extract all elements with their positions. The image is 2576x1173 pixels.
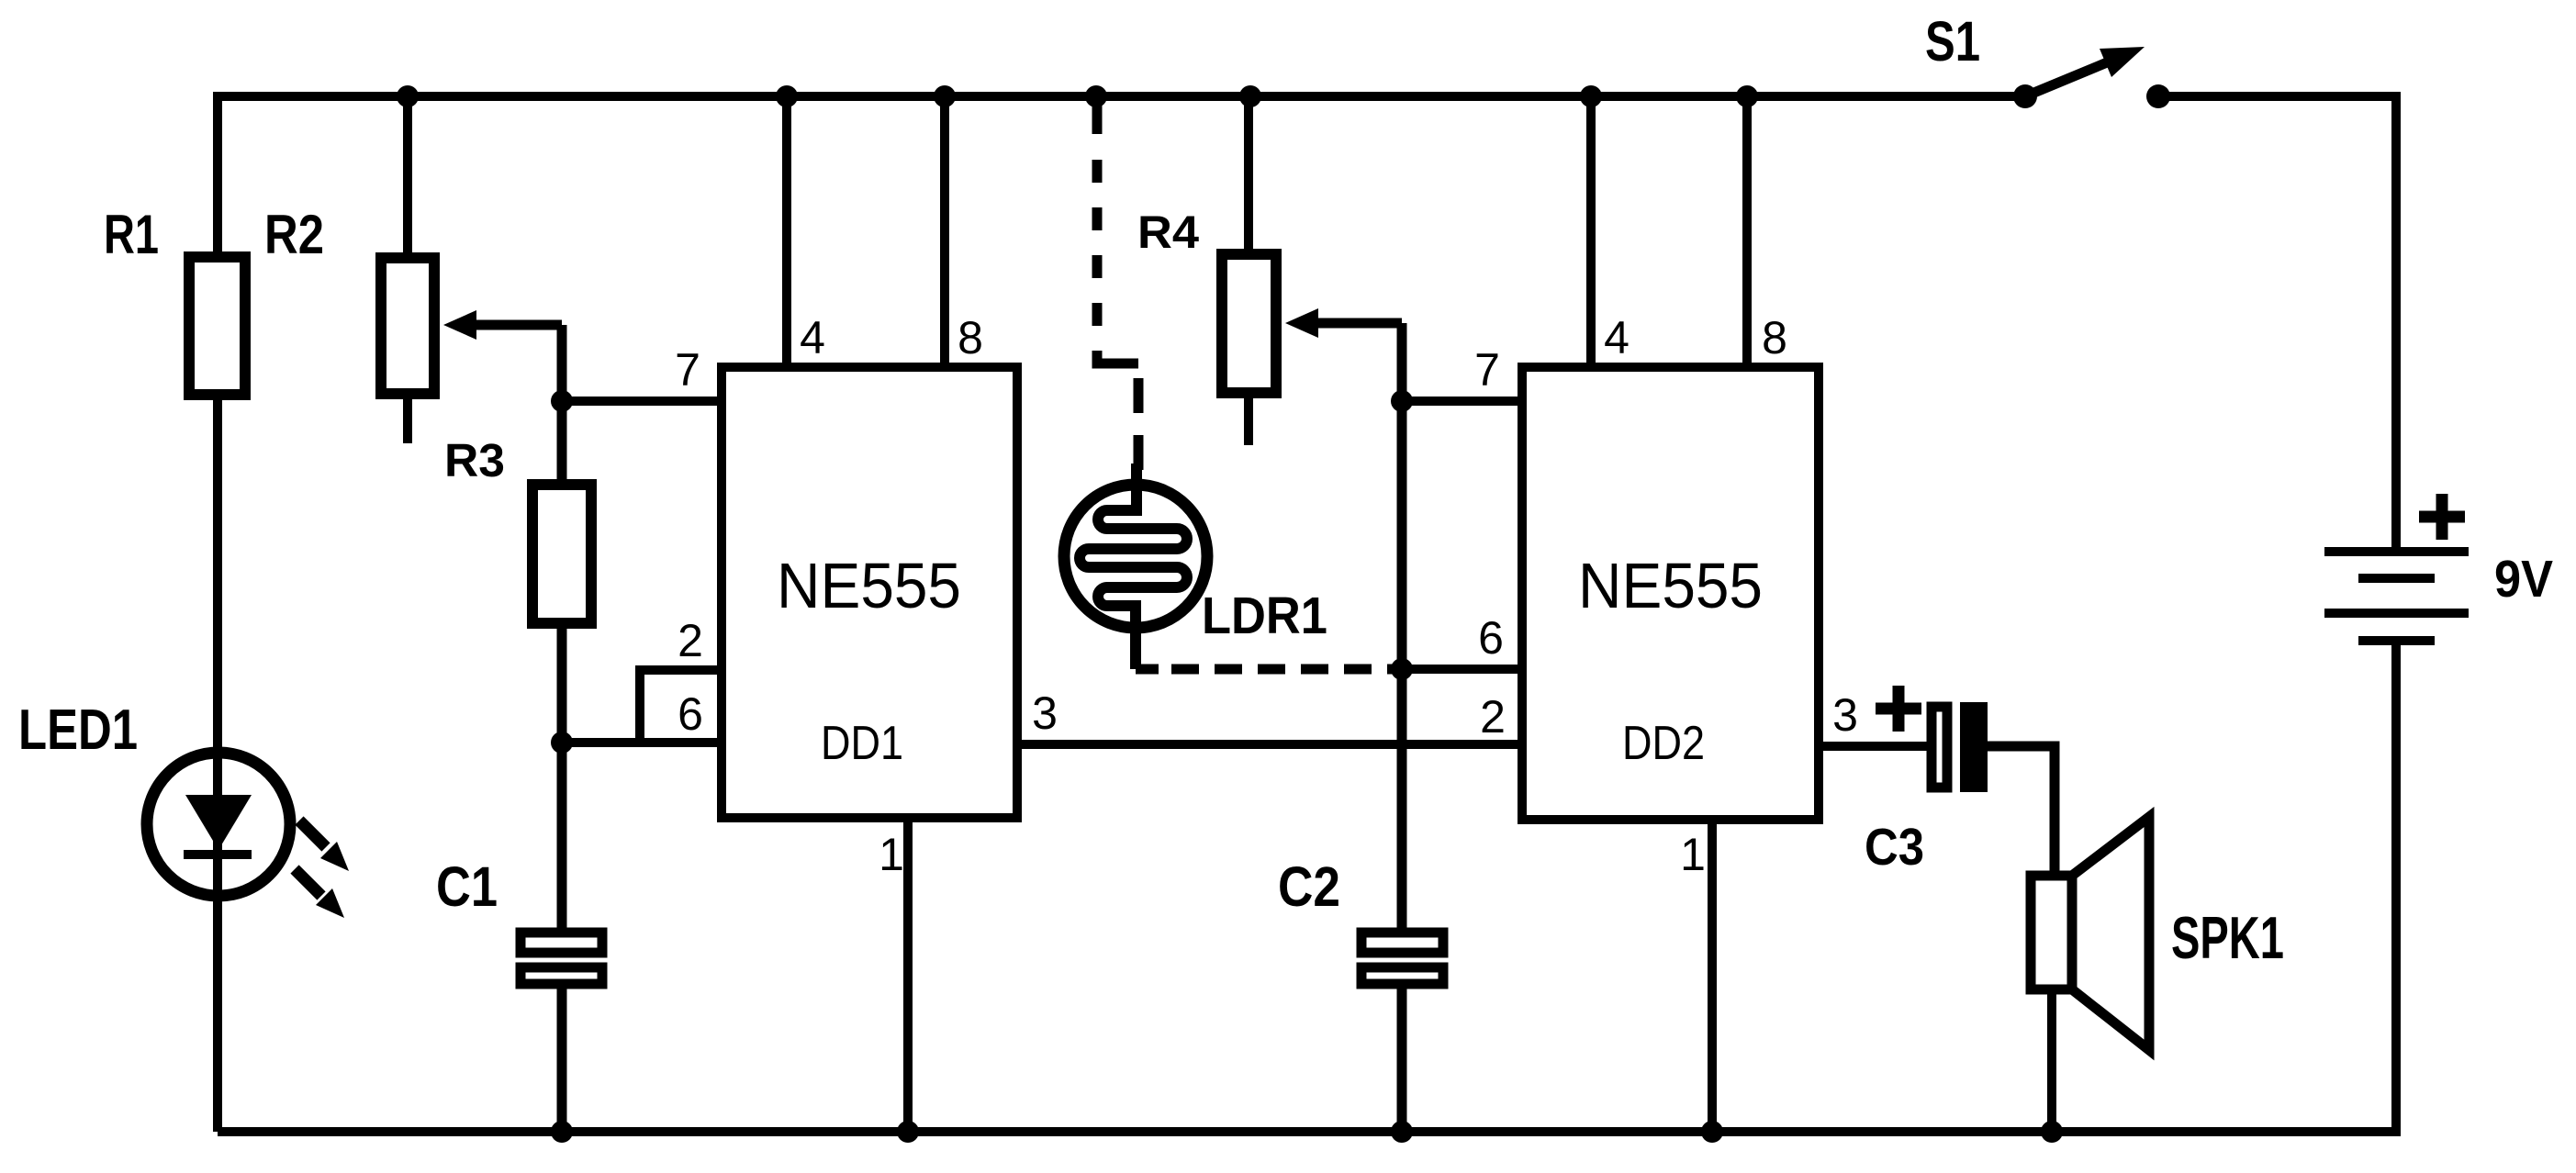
- resistor R1: [189, 257, 245, 395]
- svg-text:6: 6: [1478, 612, 1504, 664]
- node junction top rail DD1 pin4: [776, 85, 798, 107]
- wire R2 wiper arrow to node: [443, 310, 562, 401]
- wire node column to C2: [1397, 323, 1407, 933]
- node junction top rail DD2 pin4: [1580, 85, 1602, 107]
- capacitor C2: [1361, 933, 1443, 1132]
- wire R4 wiper arrow to node: [1285, 308, 1402, 338]
- node junction pin7 DD1: [551, 390, 573, 412]
- wire DD2 pin 4: [1586, 96, 1596, 367]
- svg-text:R2: R2: [264, 204, 324, 265]
- svg-text:6: 6: [678, 688, 703, 740]
- node junction bottom C2: [1391, 1121, 1413, 1143]
- svg-text:R4: R4: [1137, 207, 1199, 258]
- svg-text:2: 2: [1480, 691, 1506, 743]
- wire DD2 pin 6: [1402, 665, 1522, 674]
- wire speaker to ground rail: [2047, 989, 2056, 1132]
- capacitor C1: [521, 743, 602, 1132]
- svg-text:DD1: DD1: [821, 717, 903, 770]
- wire bottom rail (ground): [218, 1127, 2401, 1136]
- wire R4 top lead: [1244, 96, 1253, 256]
- plus sign C3 polarity: [1876, 686, 1921, 732]
- wire top rail right segment: [2158, 92, 2401, 101]
- wire DD1 pin 3 output to DD2 pin 2: [1017, 740, 1522, 749]
- wire left rail below LED: [213, 853, 222, 1132]
- node junction pin6 DD2: [1391, 658, 1413, 680]
- svg-text:3: 3: [1032, 687, 1058, 739]
- potentiometer R4: [1222, 254, 1276, 445]
- LED LED1: [147, 740, 290, 899]
- wire DD2 pin 8: [1742, 96, 1752, 367]
- svg-text:LDR1: LDR1: [1202, 586, 1327, 645]
- svg-text:8: 8: [958, 312, 983, 363]
- capacitor C3: [1932, 702, 1988, 792]
- svg-text:4: 4: [1604, 312, 1630, 363]
- svg-text:3: 3: [1832, 689, 1858, 741]
- svg-text:4: 4: [800, 312, 825, 363]
- svg-text:LED1: LED1: [18, 698, 138, 762]
- switch S1: [2013, 47, 2170, 108]
- node junction top rail DD2 pin8: [1736, 85, 1758, 107]
- LED emission arrow 2: [295, 869, 344, 918]
- wire R2 top lead: [403, 96, 412, 260]
- wire R3 bottom lead: [557, 623, 567, 743]
- wire DD1 pin 7: [562, 397, 722, 406]
- wire left rail (R1/LED branch) upper: [213, 92, 222, 259]
- svg-text:7: 7: [675, 344, 700, 396]
- svg-text:9V: 9V: [2494, 550, 2553, 609]
- svg-text:1: 1: [1680, 829, 1706, 880]
- potentiometer R2: [381, 258, 434, 443]
- svg-text:C2: C2: [1278, 855, 1340, 918]
- wire top rail left segment (VCC): [218, 92, 2025, 101]
- wire DD2 pin 1: [1708, 820, 1717, 1132]
- wire left rail between R1 and LED: [213, 393, 222, 797]
- LED emission arrow 1: [299, 821, 349, 871]
- svg-text:NE555: NE555: [777, 550, 961, 621]
- svg-text:SPK1: SPK1: [2171, 904, 2284, 971]
- node junction top rail R2: [397, 85, 419, 107]
- resistor R3: [532, 485, 591, 623]
- svg-text:8: 8: [1762, 312, 1787, 363]
- wire dashed LDR top lead: [1097, 96, 1138, 470]
- node junction bottom DD2 pin1: [1701, 1121, 1723, 1143]
- wire DD1 pin 8: [940, 96, 949, 367]
- op-amp/IC DD2 NE555: [1522, 367, 1819, 820]
- svg-text:NE555: NE555: [1578, 550, 1763, 621]
- photoresistor LDR1: [1064, 464, 1207, 669]
- node junction top rail DD1 pin8: [934, 85, 956, 107]
- svg-text:S1: S1: [1925, 10, 1980, 73]
- plus sign battery polarity: [2419, 494, 2465, 540]
- wire DD1 pin 4: [782, 96, 791, 367]
- svg-text:R1: R1: [104, 204, 159, 265]
- wire dashed LDR bottom lead to node: [1136, 665, 1402, 675]
- battery 9V: [2324, 552, 2469, 641]
- node junction bottom C1: [551, 1121, 573, 1143]
- node junction bottom speaker: [2041, 1121, 2063, 1143]
- wire DD1 pin 1: [903, 818, 913, 1132]
- wire R3 top lead: [557, 401, 567, 486]
- wire DD2 pin 7: [1402, 397, 1522, 406]
- node junction pin6 DD1: [551, 732, 573, 754]
- wire DD1 pin 2 loop: [640, 665, 722, 743]
- svg-text:R3: R3: [444, 434, 505, 486]
- op-amp/IC DD1 NE555: [722, 367, 1017, 818]
- wire DD1 pin 6: [562, 738, 722, 747]
- svg-text:1: 1: [879, 829, 904, 880]
- node junction bottom DD1 pin1: [897, 1121, 919, 1143]
- node junction pin7 DD2: [1391, 390, 1413, 412]
- speaker SPK1: [2031, 817, 2149, 1050]
- svg-text:C1: C1: [436, 855, 498, 918]
- wire right rail below battery: [2391, 641, 2401, 1136]
- svg-text:2: 2: [678, 615, 703, 666]
- svg-text:7: 7: [1474, 344, 1500, 396]
- node junction top rail LDR branch: [1085, 85, 1107, 107]
- node junction top rail R4: [1239, 85, 1261, 107]
- svg-text:DD2: DD2: [1622, 717, 1705, 770]
- wire right rail above battery: [2391, 92, 2401, 551]
- svg-text:C3: C3: [1865, 818, 1924, 877]
- wire C3 to speaker: [1988, 746, 2055, 879]
- wire DD2 pin 3 to C3: [1819, 742, 1932, 751]
